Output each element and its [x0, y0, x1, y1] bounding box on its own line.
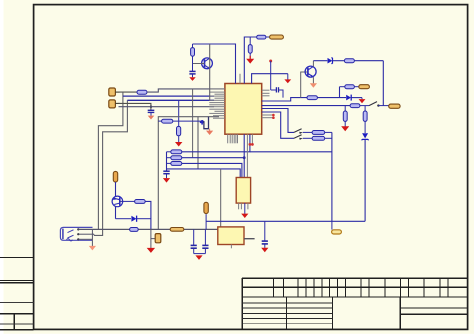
transistor Q3 base wire [301, 72, 308, 98]
capacitor C1 [189, 71, 195, 74]
resistor R4 [248, 37, 252, 58]
resistor R2 [191, 44, 195, 64]
jack J3 switch levers [67, 230, 74, 241]
wire row4 branch to U2 [220, 169, 222, 227]
node dot row3 [251, 143, 254, 146]
wire R7 to D2 [317, 97, 346, 99]
audio jack J3 body [60, 227, 92, 240]
node dot row2 [243, 156, 246, 159]
wire S1 to P6 [378, 105, 389, 107]
wire net9 to C2 [271, 89, 277, 91]
resistor R18 [162, 119, 173, 123]
U1 top pin stub unconnected [239, 74, 241, 84]
power port arrow at D2 [359, 98, 366, 104]
wire vertical from top right [382, 61, 384, 106]
wire row2 to node [182, 157, 244, 159]
power port arrow at C4 (salmon) [206, 129, 213, 135]
node dot C3 on bus [150, 106, 152, 108]
wire net9 vertical [270, 61, 272, 90]
wire B net right [262, 105, 351, 107]
U2 right pin stub [244, 238, 255, 240]
wire to resistor R18 [158, 120, 162, 122]
wire R5 to corner [145, 201, 151, 229]
wire branch up to R8 [339, 87, 341, 98]
wire net8 U1 top right [252, 74, 288, 84]
resistor R6 on main rail [130, 228, 139, 232]
wire R13 to bus [325, 131, 332, 133]
capacitor C6 [191, 229, 197, 253]
resistor R1 [137, 90, 147, 94]
connector pad P6 [389, 104, 400, 108]
wire row3 to U3 [182, 163, 242, 177]
wire main rail from jack [78, 228, 218, 230]
resistor R17 row3 [167, 162, 182, 166]
jack J3 contact dots [77, 228, 79, 240]
polarized capacitor C4 plate [204, 117, 209, 129]
connector pad P2 [113, 171, 117, 182]
wire Q3 emitter down [312, 77, 314, 83]
U1 right short pin stubs [262, 90, 273, 118]
power port arrow below P8 [147, 248, 155, 253]
power port arrow below R4 [246, 56, 254, 64]
title block band bottom rule [242, 296, 467, 298]
title block row rules [242, 302, 332, 304]
wire C1 stubs [192, 64, 194, 72]
IC U3 body [236, 178, 250, 204]
wire right bus vertical [331, 132, 333, 221]
wire ground rail C6 C7 [194, 253, 206, 255]
power port arrow below C8 [261, 248, 268, 253]
connector pad J2 [109, 100, 116, 108]
wire row4 [167, 169, 241, 178]
title block column dividers [286, 297, 288, 330]
U3 bottom pin stubs [239, 203, 248, 209]
wire S3 to R14 [303, 137, 313, 139]
U2 bottom pin stub [230, 245, 232, 249]
wire P4 bottom junction [205, 214, 207, 229]
wire U1 to U3 vertical [243, 134, 245, 177]
wire branch to resistor R19 [178, 100, 180, 126]
polarized capacitor C4 plus sign [200, 120, 205, 125]
connector pad P7 [332, 230, 342, 234]
power port arrow below Q3 (salmon) [310, 83, 317, 88]
resistor R13 [312, 131, 325, 135]
transistor Q3 [305, 66, 316, 78]
wire D1 to corner [137, 218, 151, 220]
power port arrow below U3 [241, 214, 248, 218]
wire C5 down [166, 174, 168, 179]
zener diode D3 [362, 133, 369, 140]
wire C2 right down [279, 90, 284, 98]
bottom-left revision table (outside frame, cropped) [0, 256, 34, 258]
IC U1 body [225, 84, 262, 135]
pin stub U1 bottom right with dot [251, 134, 253, 143]
capacitor C7 [202, 229, 208, 253]
wire net6 top corner [158, 117, 219, 230]
wire P8 ground [150, 239, 152, 249]
transistor Q1 collector wire [193, 44, 236, 84]
diode D4 [328, 58, 333, 64]
diode D1 [131, 216, 136, 222]
capacitor C3 [148, 110, 155, 112]
wire bus to pad P7 [331, 221, 333, 229]
wire R18 to capacitor C4 [173, 120, 204, 122]
wire net2 audio bus upper [98, 92, 123, 229]
title block right section rules [400, 307, 467, 309]
capacitor C8 [262, 221, 268, 248]
diode D2 [346, 95, 351, 101]
wire R14 to bus [325, 137, 332, 139]
transistor Q2 [112, 196, 123, 207]
wire R19 to arrow [178, 136, 180, 142]
resistor R8 [345, 85, 355, 89]
wire net5 J2 lower to IC [119, 106, 215, 108]
switch S3 lever [294, 135, 303, 140]
wire row1 net extension [250, 151, 332, 153]
wire R3 to pad P1 [266, 36, 270, 38]
power port arrow at net8 [284, 74, 291, 84]
wire U3 ground [244, 203, 246, 214]
power port arrow at C3 (salmon) [148, 116, 155, 120]
U1 left pin stubs [209, 89, 225, 118]
fuse pad P4 vertical [204, 202, 208, 213]
wire net3 horizontal to IC [127, 99, 214, 101]
connector pad J1 [109, 88, 116, 96]
wire jack pin2 [78, 233, 94, 235]
power port arrow below C5 [163, 178, 170, 183]
wire U1 pin to U3 second [246, 134, 248, 177]
connector pad P5 [359, 85, 370, 89]
wire net1 R1 to IC [147, 89, 225, 92]
power port arrow below R19 [175, 142, 182, 147]
wire C3 to power arrow [150, 112, 152, 115]
resistor R10 [343, 106, 347, 127]
wire Q1 base [193, 63, 205, 65]
wire top right net [313, 60, 327, 62]
resistor R16 row2 [167, 156, 182, 160]
wire net2 horizontal to IC [123, 95, 214, 97]
node dot S1 [377, 104, 379, 106]
capacitor C5 [163, 171, 169, 174]
wire R12 to corner [354, 60, 383, 62]
title block band middle rule [242, 286, 467, 288]
resistor R11 [363, 106, 367, 133]
U1 bottom pin stubs [228, 134, 238, 143]
wire stub down from net6 [197, 117, 199, 169]
resistor R3 [257, 35, 266, 39]
resistor R5 [135, 200, 146, 204]
node dot pin right a [272, 114, 275, 117]
resistor R15 row1 [167, 150, 182, 154]
pin stub J2 [115, 102, 119, 104]
wire D2 right [351, 97, 362, 99]
wire row1 to U1 [182, 134, 250, 152]
node dot pin right b [272, 116, 275, 119]
wire switch row2 from U1 [262, 112, 294, 138]
wire D3 down to rail [364, 140, 366, 222]
wire R9 to switch [360, 105, 369, 107]
wire bus left of resistor row [166, 152, 168, 171]
title block outline [242, 277, 467, 279]
wire P2 to Q2 [115, 182, 117, 196]
connector pad P8 stub [151, 229, 156, 238]
connector pad P8 [155, 234, 161, 243]
wire jack pin2 link [93, 234, 95, 235]
node dot row1 [249, 143, 252, 146]
transistor Q1 [202, 58, 213, 69]
wire net7 top to R3 [244, 37, 257, 84]
capacitor C2 [276, 87, 278, 92]
resistor R14 [312, 136, 325, 140]
wire Q1 vertical [209, 44, 211, 100]
wire net L1 branch down [192, 89, 194, 158]
wire net3 audio bus lower [94, 100, 127, 235]
resistor R7 [307, 96, 317, 100]
wire to R8 [340, 86, 346, 88]
connector pad P1 [270, 35, 284, 39]
wire Q2 base right [120, 200, 135, 202]
power port arrow below C1 [189, 77, 195, 81]
node dot net9 [269, 60, 272, 63]
wire jack ground drop [91, 229, 93, 246]
wire to diode D1 [116, 218, 132, 220]
resistor R19 [177, 126, 181, 135]
wire Q3 collector up [312, 61, 314, 67]
power port arrow below rail [195, 255, 202, 260]
switch S1 lever [369, 102, 377, 106]
wire S2 to R13 [303, 131, 313, 133]
wire jack ground [78, 238, 92, 240]
fuse pad P3 on main rail [170, 228, 184, 232]
wire Q2 emitter down [115, 206, 117, 218]
wire R8 to P5 [354, 86, 359, 88]
switch S2 lever [294, 129, 303, 134]
resistor R12 [344, 59, 354, 63]
wire net4 J2 to capacitor C3 [119, 103, 151, 110]
title block band cell dividers [273, 278, 275, 297]
resistor R9 [350, 104, 360, 108]
wire switch row1 from U1 [262, 109, 294, 133]
wire D4 to R12 [333, 60, 345, 62]
wire net1 J1 to resistor R1 [119, 91, 138, 93]
power port arrow below R10 [341, 126, 349, 131]
wire A net right [262, 98, 308, 101]
regulator U2 body [218, 227, 244, 245]
pin stub J1 [115, 91, 119, 93]
bottom-left revision table thin rules [0, 302, 34, 304]
power port arrow at jack (salmon) [89, 246, 96, 251]
wire vcc rail right [206, 220, 365, 222]
